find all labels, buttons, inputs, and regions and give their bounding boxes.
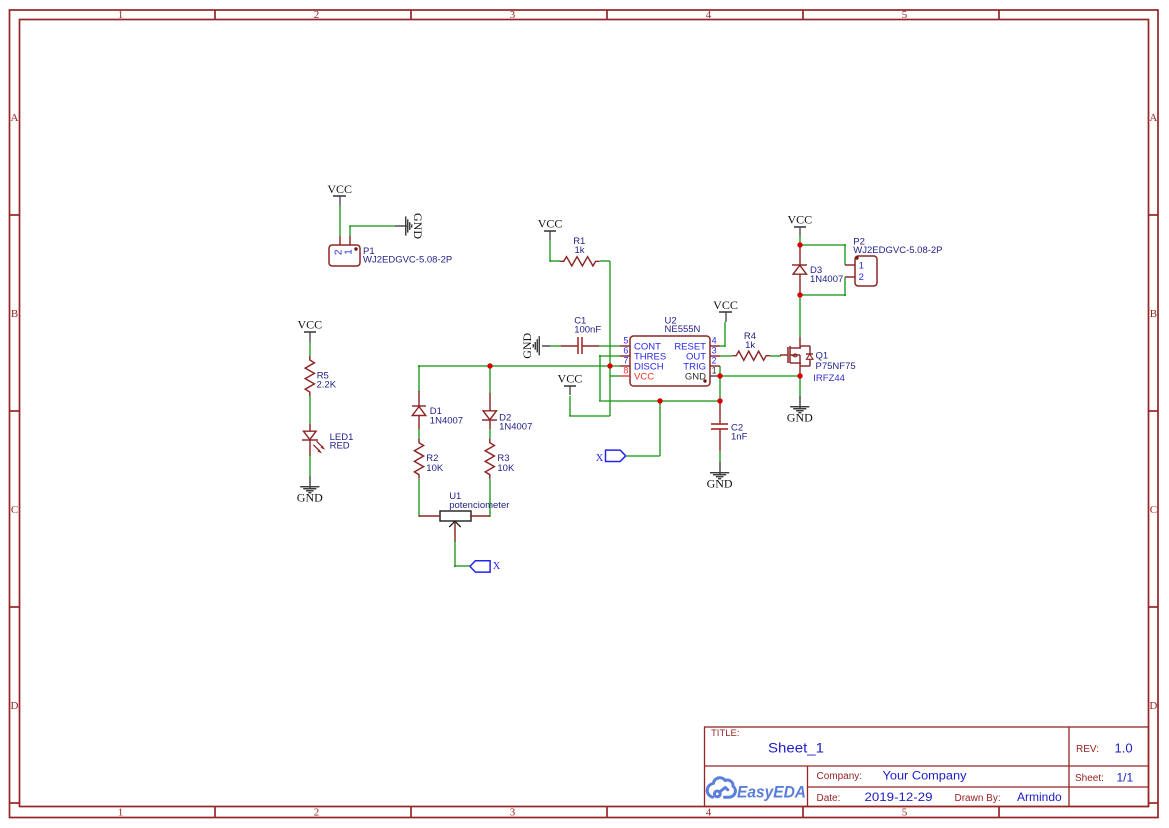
svg-text:VCC: VCC (713, 298, 738, 312)
svg-text:3: 3 (510, 9, 516, 21)
svg-text:D: D (1149, 700, 1157, 712)
wire bus to X port 2 (659, 401, 661, 456)
svg-text:B: B (1150, 308, 1157, 320)
pin 2 TRIG (710, 365, 720, 367)
svg-text:potenciometer: potenciometer (449, 500, 509, 511)
wire D1 drop (418, 366, 420, 392)
svg-text:GND: GND (787, 410, 813, 424)
wire R2 to potentiometer (418, 479, 420, 517)
svg-text:5: 5 (623, 335, 628, 345)
netport X at potentiometer (470, 561, 490, 572)
ground GND below Q1 (799, 396, 801, 408)
wire VCC net to pin 8 (610, 375, 620, 377)
node junction at D2 top (487, 363, 492, 368)
svg-text:C: C (1150, 504, 1157, 516)
svg-text:RED: RED (330, 441, 350, 452)
pin 3 OUT (710, 355, 720, 357)
svg-text:X: X (596, 453, 604, 464)
pin 6 THRES (620, 355, 630, 357)
svg-text:2: 2 (712, 355, 717, 365)
svg-text:VCC: VCC (787, 212, 812, 226)
ground GND at C1 (542, 345, 550, 347)
power flag VCC at Q1 (794, 226, 806, 228)
transistor Q1 (780, 337, 856, 384)
wire to P2 pin 2 (800, 294, 846, 296)
LED LED1 (302, 424, 353, 456)
diode D1 (412, 391, 463, 429)
svg-text:Your Company: Your Company (883, 768, 967, 782)
node junction bus/X (657, 398, 662, 403)
wire C2 to GND (719, 451, 721, 462)
wire R4 to Q1 gate (770, 355, 781, 357)
svg-text:WJ2EDGVC-5.08-2P: WJ2EDGVC-5.08-2P (363, 255, 452, 266)
wire P1 pin 1 to GND (349, 226, 351, 236)
svg-text:3: 3 (510, 807, 516, 819)
pin 1 GND (710, 375, 720, 377)
wire D1 to R2 (418, 429, 420, 439)
resistor R2 (414, 439, 423, 479)
node junction DISCH/R1 (607, 363, 612, 368)
svg-text:1: 1 (343, 249, 354, 255)
svg-text:Drawn By:: Drawn By: (955, 793, 1001, 804)
svg-text:Armindo: Armindo (1017, 790, 1062, 804)
wire to P2 pin 1 (800, 244, 846, 246)
svg-text:1nF: 1nF (731, 431, 748, 442)
wire top junction D1/D2 to DISCH (418, 365, 420, 367)
svg-text:REV:: REV: (1076, 744, 1099, 755)
wire VCC to R1 (549, 240, 551, 262)
svg-text:100nF: 100nF (574, 325, 601, 336)
svg-text:1N4007: 1N4007 (430, 415, 463, 426)
connector P2 (845, 237, 943, 286)
power flag VCC lower left of U2 (564, 385, 576, 387)
resistor R5 (305, 356, 314, 396)
wire R5 to LED1 (309, 396, 311, 424)
svg-text:GND: GND (520, 332, 534, 358)
ground GND right of P1 (395, 225, 407, 227)
svg-text:4: 4 (706, 9, 712, 21)
svg-text:GND: GND (685, 372, 706, 383)
svg-text:EasyEDA: EasyEDA (737, 784, 806, 802)
svg-text:A: A (11, 112, 19, 124)
wire D2 drop from junction (489, 366, 491, 393)
svg-text:Company:: Company: (817, 771, 863, 782)
ground GND below C2 (719, 462, 721, 474)
wire LED1 to GND (309, 455, 311, 476)
power flag VCC at RESET (719, 311, 732, 313)
svg-text:2: 2 (314, 807, 320, 819)
node junction pin1 GND/source (717, 373, 722, 378)
svg-text:2: 2 (859, 272, 864, 283)
svg-text:8: 8 (623, 365, 628, 375)
svg-text:1: 1 (712, 365, 717, 375)
potentiometer U1 (419, 491, 509, 542)
title block (705, 727, 1149, 807)
svg-text:1k: 1k (575, 245, 585, 256)
power flag VCC at R1 (544, 230, 556, 232)
svg-text:2019-12-29: 2019-12-29 (865, 790, 933, 804)
capacitor C2 (711, 402, 748, 451)
wire bottom bus (599, 400, 720, 402)
svg-text:VCC: VCC (634, 372, 654, 383)
svg-text:Sheet:: Sheet: (1075, 773, 1104, 784)
resistor R4 (732, 351, 770, 360)
pin 8 VCC (620, 375, 630, 377)
wire lower VCC flag path (569, 415, 610, 417)
connector P1 (329, 236, 452, 266)
svg-text:Date:: Date: (817, 793, 841, 804)
ground GND below LED1 (309, 476, 311, 488)
resistor R1 (560, 257, 600, 266)
svg-text:A: A (1149, 112, 1157, 124)
svg-text:4: 4 (706, 807, 712, 819)
wire VCC down to D3 (799, 236, 801, 245)
wire R3 to potentiometer (489, 479, 491, 517)
power flag VCC at R5 (304, 331, 316, 333)
svg-text:P75NF75: P75NF75 (816, 361, 856, 372)
wire D3 bottom to Q1 drain (799, 295, 801, 337)
node junction D3/P2/Q1 (797, 292, 802, 297)
svg-text:VCC: VCC (538, 217, 563, 231)
node junction bus/C2/TRIG (717, 398, 722, 403)
pin 7 DISCH (620, 365, 630, 367)
node junction Q1 source (797, 373, 802, 378)
pin 4 RESET (710, 345, 720, 347)
wire source to GND net (720, 375, 800, 377)
svg-text:1N4007: 1N4007 (810, 274, 843, 285)
wire C1 to CONT pin 5 (599, 345, 620, 347)
netport X near U2 (606, 450, 626, 461)
svg-text:6: 6 (623, 345, 628, 355)
svg-text:Q1: Q1 (816, 351, 829, 362)
svg-text:5: 5 (902, 807, 908, 819)
wire D2 to R3 (489, 429, 491, 439)
wire VCC to P1 pin 2 (339, 206, 341, 236)
svg-text:VCC: VCC (327, 182, 352, 196)
svg-text:10K: 10K (426, 463, 444, 474)
svg-text:X: X (493, 561, 501, 572)
svg-text:D: D (11, 700, 19, 712)
diode D2 (482, 393, 532, 432)
svg-text:4: 4 (712, 335, 717, 345)
svg-text:1: 1 (118, 9, 124, 21)
wire down to GND below Q1 (799, 376, 801, 397)
svg-text:1: 1 (859, 261, 864, 272)
op-amp U2 NE555N (620, 315, 720, 386)
svg-text:1.0: 1.0 (1115, 741, 1133, 756)
svg-text:10K: 10K (497, 463, 515, 474)
capacitor C1 (561, 316, 601, 355)
svg-text:GND: GND (707, 476, 733, 490)
wire VCC to R5 (309, 342, 311, 356)
svg-text:5: 5 (902, 9, 908, 21)
svg-text:TITLE:: TITLE: (711, 728, 740, 739)
wire wiper to X port (454, 541, 456, 567)
svg-text:C: C (11, 504, 18, 516)
svg-text:WJ2EDGVC-5.08-2P: WJ2EDGVC-5.08-2P (853, 245, 942, 256)
svg-text:1k: 1k (745, 340, 755, 351)
svg-text:B: B (11, 308, 18, 320)
EasyEDA logo (707, 778, 735, 797)
wire THRES to bottom bus (599, 355, 620, 357)
wire TRIG down to bus (719, 366, 721, 401)
node junction VCC/D3/P2 (797, 242, 802, 247)
svg-text:1: 1 (118, 807, 124, 819)
svg-text:VCC: VCC (297, 318, 322, 332)
svg-text:GND: GND (411, 213, 425, 239)
svg-text:2: 2 (314, 9, 320, 21)
svg-text:GND: GND (297, 490, 323, 504)
svg-text:IRFZ44: IRFZ44 (813, 373, 845, 384)
svg-text:7: 7 (623, 355, 628, 365)
svg-text:1N4007: 1N4007 (499, 421, 532, 432)
svg-text:2.2K: 2.2K (317, 379, 337, 390)
svg-text:1/1: 1/1 (1117, 770, 1134, 784)
power flag VCC at P1 (333, 195, 346, 197)
resistor R3 (485, 439, 494, 479)
svg-text:Sheet_1: Sheet_1 (768, 740, 824, 756)
wire GND to C1 (550, 345, 561, 347)
svg-text:VCC: VCC (558, 372, 583, 386)
pin 5 CONT (620, 345, 630, 347)
wire RESET pin4 to VCC (720, 345, 725, 347)
svg-text:3: 3 (712, 345, 717, 355)
diode D3 (792, 245, 843, 295)
wire R1 right down to VCC net (600, 260, 610, 262)
svg-text:NE555N: NE555N (665, 324, 701, 335)
wire OUT to R4 (720, 355, 732, 357)
